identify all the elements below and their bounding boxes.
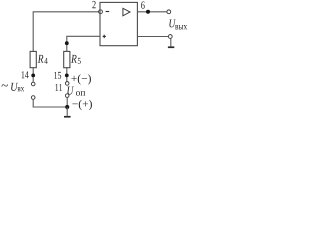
terminal output common circle: [168, 35, 172, 39]
wire R4 bottom lead: [32, 68, 34, 83]
terminal Uop top circle: [65, 82, 69, 86]
wire to bottom junction: [66, 97, 68, 110]
junction bottom common: [65, 105, 69, 109]
op-amp amplifier triangle symbol: [123, 8, 130, 16]
junction above R5: [65, 41, 69, 45]
terminal input top circle: [31, 82, 35, 86]
ground right: [170, 39, 172, 47]
ground middle: [66, 107, 68, 116]
terminal output circle: [167, 10, 171, 14]
wire bottom left rail: [33, 99, 65, 107]
terminal input bottom circle: [31, 96, 35, 100]
label U_op: [67, 87, 73, 95]
label 15: [54, 72, 61, 79]
wire lower right to common terminal: [137, 36, 168, 38]
wire non-inverting input from R5 top: [67, 36, 100, 51]
node 15 junction dot: [65, 74, 69, 78]
junction on output wire: [146, 10, 150, 14]
label polarity plus-minus: [71, 74, 91, 84]
resistor R4: [30, 51, 36, 67]
label pin 6: [141, 2, 145, 9]
label R5: [71, 55, 77, 63]
label R4: [38, 55, 44, 63]
node 14 junction dot: [31, 74, 35, 78]
terminal Uop bottom circle: [65, 94, 69, 98]
op-amp inverting input minus sign: [106, 11, 110, 13]
label ~U_vh: [2, 84, 8, 86]
op-amp U1 body: [100, 2, 137, 45]
wire feedback from R4 top to inverting input: [33, 12, 98, 52]
label U_vyh: [169, 19, 175, 27]
wire output from pin 6: [137, 11, 167, 13]
node pin 2 input terminal circle: [99, 10, 103, 14]
label pin 2: [92, 1, 95, 8]
resistor R5: [64, 51, 70, 67]
label polarity minus-plus: [72, 100, 92, 110]
op-amp non-inverting input plus sign: [103, 35, 106, 38]
label 14: [22, 71, 29, 78]
wire R5 bottom lead: [66, 68, 68, 82]
label 11: [55, 84, 62, 91]
